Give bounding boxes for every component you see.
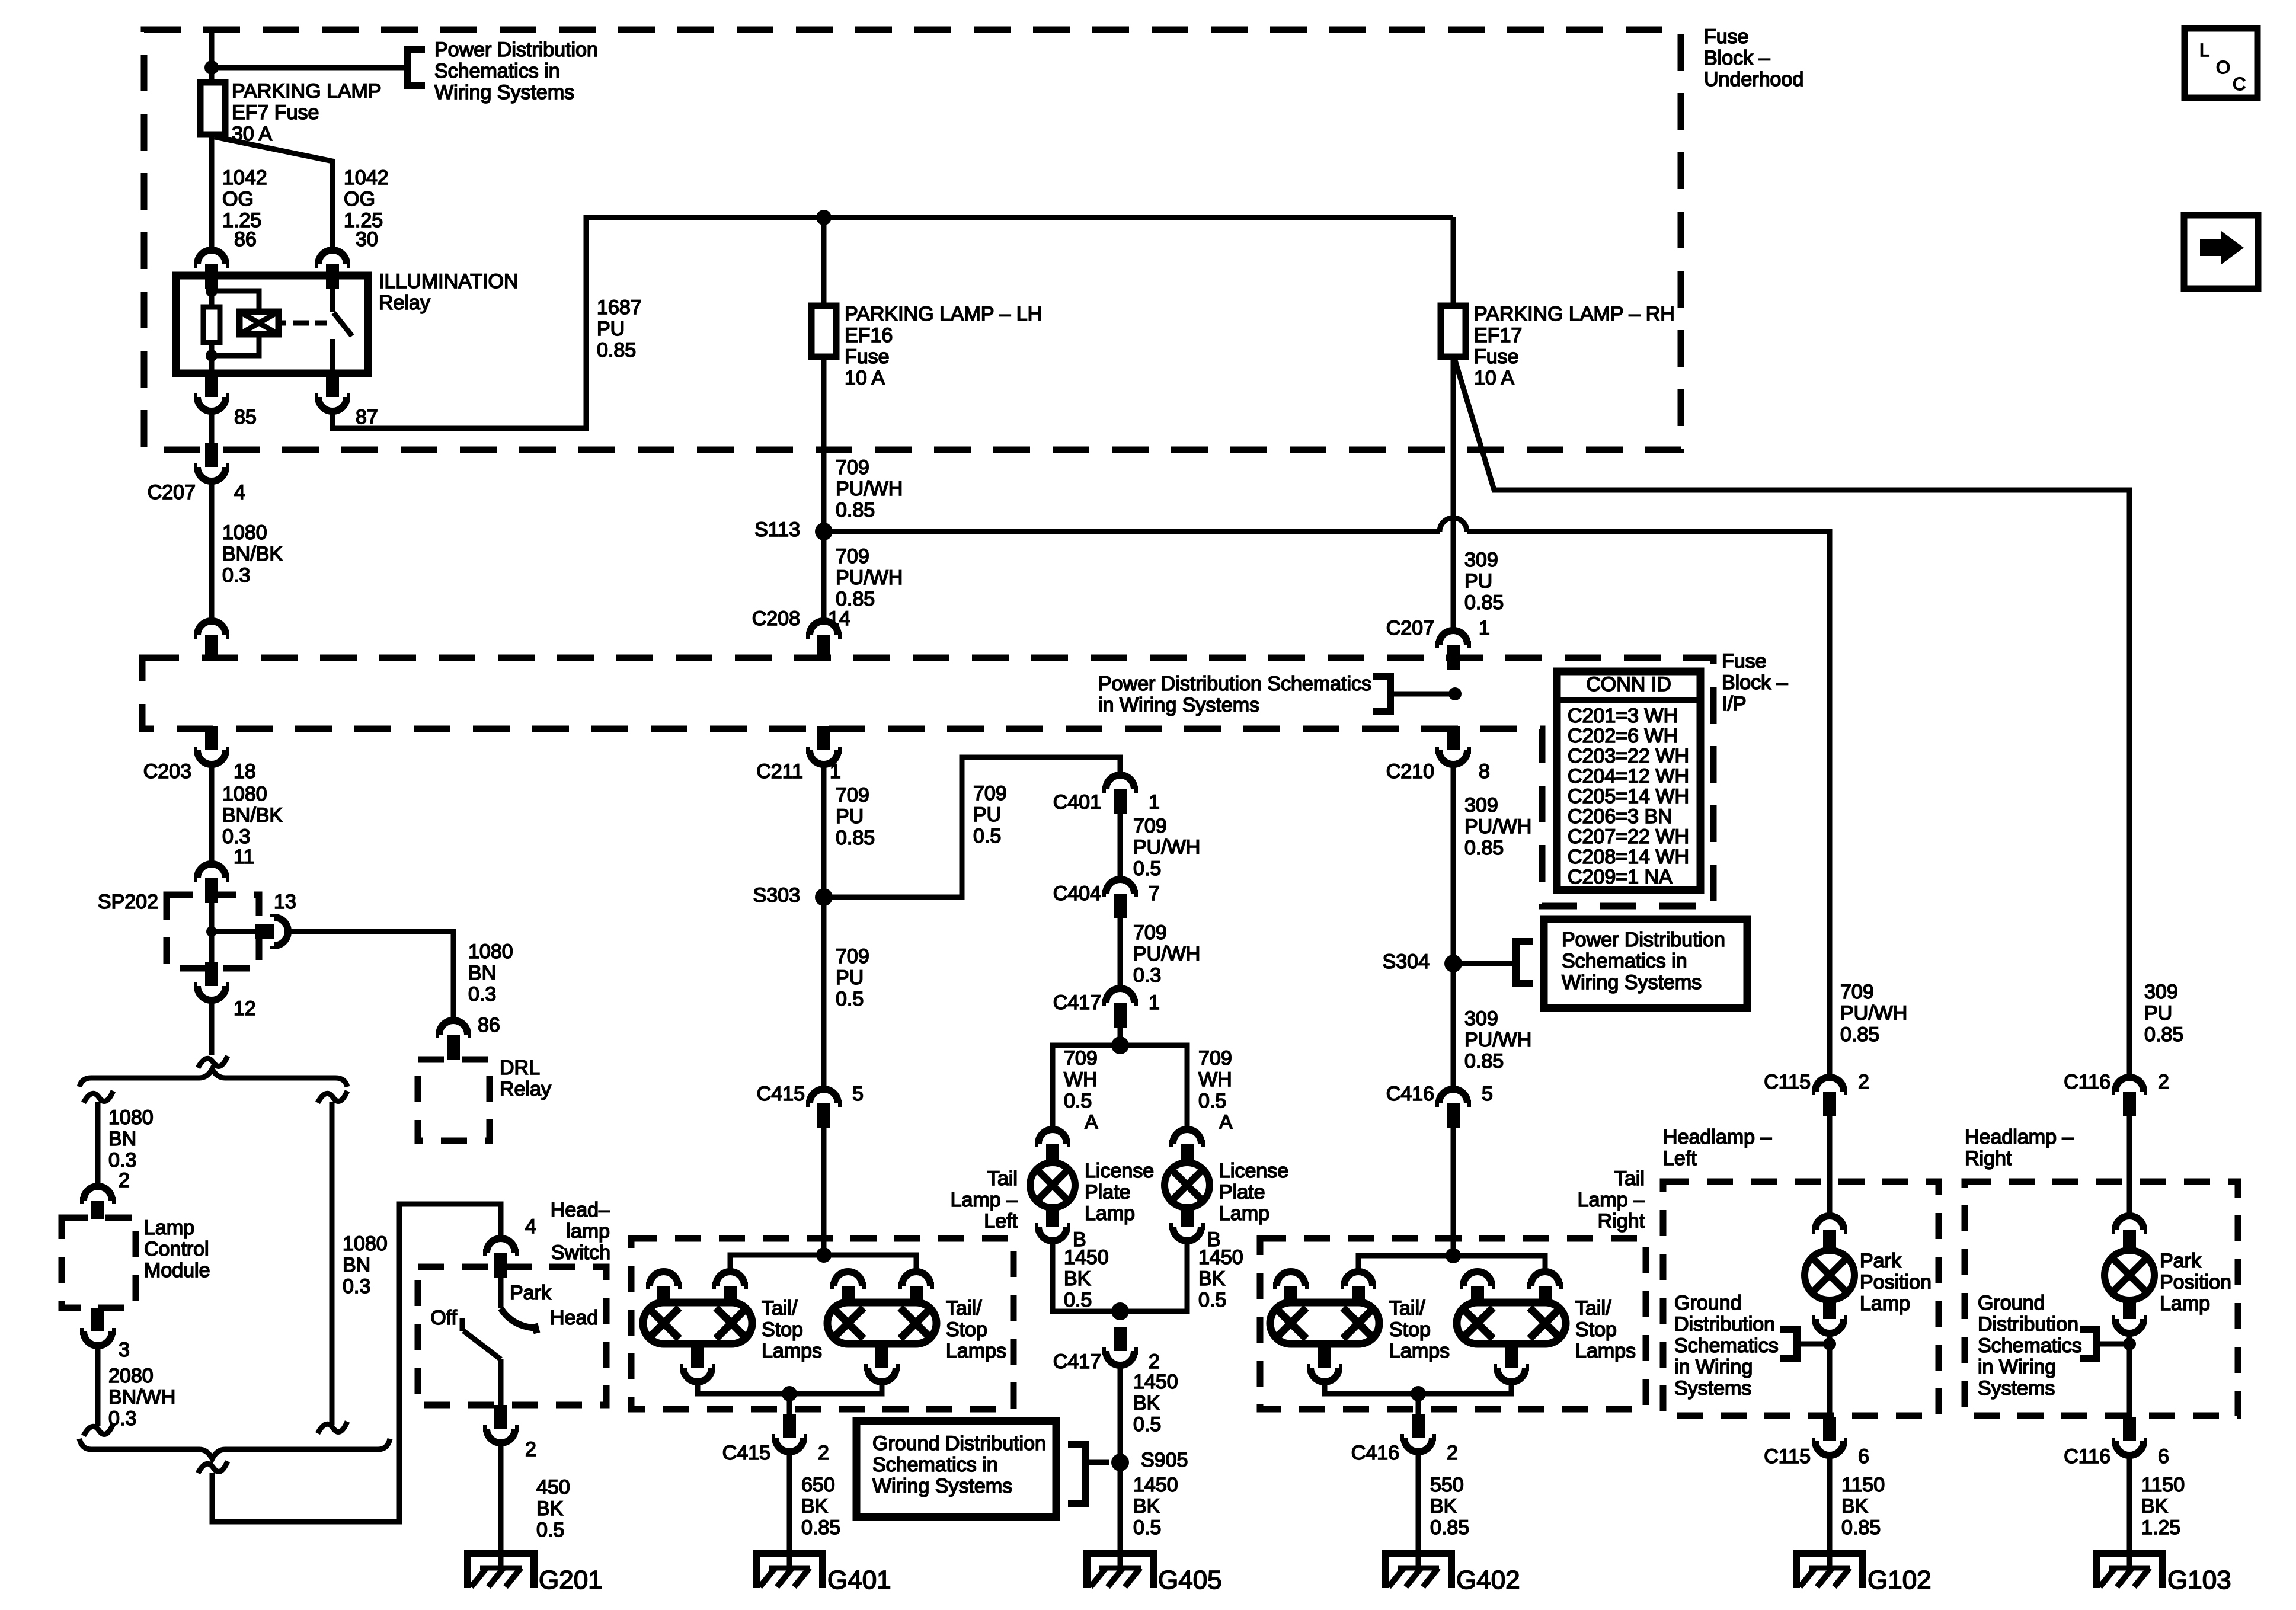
tail lamp right box (dashed) xyxy=(1260,1238,1646,1409)
relay coil symbol xyxy=(239,312,286,334)
connector license lamp left bottom xyxy=(1035,1208,1070,1241)
label C116 (pin6) xyxy=(2064,1445,2110,1468)
label pin 87 xyxy=(356,406,378,428)
label 4 xyxy=(234,481,245,504)
label 14 xyxy=(828,607,850,630)
wire park left to C115-6 xyxy=(1827,1336,1833,1417)
svg-text:2: 2 xyxy=(1858,1071,1869,1093)
connector SP202 pin 12 xyxy=(194,962,229,1000)
svg-text:85: 85 xyxy=(234,406,257,428)
splice S113 xyxy=(815,523,833,540)
svg-text:C203: C203 xyxy=(143,760,191,783)
wire pin 12 down xyxy=(209,1000,215,1055)
svg-text:1: 1 xyxy=(1149,991,1160,1014)
svg-text:6: 6 xyxy=(1858,1445,1869,1468)
label Tail/Stop Lamps (left1) xyxy=(762,1297,822,1362)
label C210 xyxy=(1386,760,1434,783)
connector C417 pin 1 xyxy=(1102,988,1138,1028)
ground G201 xyxy=(468,1553,534,1588)
label C115 (pin6) xyxy=(1764,1445,1811,1468)
connector park lamp right top xyxy=(2112,1216,2147,1251)
wire bracket to S905 xyxy=(1085,1462,1109,1474)
node SP202 xyxy=(206,926,217,937)
switch rotary arc xyxy=(501,1308,537,1333)
svg-text:S113: S113 xyxy=(754,518,800,541)
svg-text:S303: S303 xyxy=(753,884,800,907)
fuse block I/P boundary (dashed) xyxy=(142,658,1713,906)
label PARKING LAMP - LH EF16 Fuse 10 A xyxy=(845,303,1042,389)
wire tail right bus xyxy=(1358,1256,1545,1272)
wire bracket right to wire xyxy=(2097,1342,2124,1347)
svg-text:C416: C416 xyxy=(1351,1442,1399,1464)
svg-text:7: 7 xyxy=(1149,882,1160,905)
svg-text:C417: C417 xyxy=(1053,991,1101,1014)
label 12 xyxy=(234,997,256,1020)
svg-text:Head: Head xyxy=(550,1307,598,1329)
connector SP202 pin 13 xyxy=(255,914,288,949)
DRL relay box (dashed) xyxy=(418,1060,490,1141)
svg-text:1: 1 xyxy=(1149,791,1160,814)
svg-text:C207: C207 xyxy=(148,481,196,504)
label 1080 BN 0.3 (right branch) xyxy=(343,1233,388,1298)
svg-text:C116: C116 xyxy=(2064,1071,2110,1093)
svg-text:Lamp –: Lamp – xyxy=(951,1189,1018,1211)
label 1 (C417) xyxy=(1149,991,1160,1014)
label 1 (C211) xyxy=(830,760,841,783)
connector SP202 pin 11 xyxy=(194,864,229,903)
node tap to power distribution callout xyxy=(204,60,219,75)
wire through SP202 xyxy=(209,889,215,962)
wire C115 into headlamp left xyxy=(1827,1116,1833,1216)
svg-text:A: A xyxy=(1085,1111,1098,1134)
svg-text:L: L xyxy=(2199,40,2209,60)
lamp license plate right xyxy=(1165,1163,1210,1208)
label 1450 BK 0.5 (left) xyxy=(1064,1246,1109,1311)
wire relay coil branch xyxy=(212,291,259,312)
label C116 (pin2) xyxy=(2064,1071,2110,1093)
label 450 BK 0.5 xyxy=(536,1476,570,1541)
splice pack SP202 box (dashed) xyxy=(167,895,259,968)
svg-text:86: 86 xyxy=(234,228,257,251)
wire tail left to C415-2 xyxy=(787,1394,792,1414)
svg-text:1: 1 xyxy=(830,760,841,783)
wire tail left ground bus xyxy=(698,1382,882,1394)
bracket ground callout right xyxy=(2080,1329,2097,1359)
label C115 (pin2) xyxy=(1764,1071,1811,1093)
label Fuse Block - Underhood xyxy=(1704,25,1803,91)
wire C211 to S303 xyxy=(821,764,827,1089)
wire left branch lower xyxy=(95,1346,101,1426)
wire pin13 to DRL relay xyxy=(288,932,453,1020)
bracket S905 callout xyxy=(1068,1444,1085,1503)
tail/stop lamp left 2 xyxy=(827,1302,936,1344)
connector LCM pin 2 xyxy=(80,1186,116,1219)
label 5 (C416) xyxy=(1482,1083,1493,1105)
label 1 (C401) xyxy=(1149,791,1160,814)
switch Off contact tick xyxy=(460,1318,465,1331)
switch arm xyxy=(463,1331,501,1359)
label 2 (C115) xyxy=(1858,1071,1869,1093)
label 6 (C115) xyxy=(1858,1445,1869,1468)
connector C404 xyxy=(1102,879,1138,918)
label 2 (LCM) xyxy=(119,1169,130,1192)
relay switch contact upper xyxy=(330,276,335,312)
label 309 PU 0.85 (above C207-1) xyxy=(1464,549,1504,614)
node ground callout tap right xyxy=(2123,1337,2136,1350)
label Lamp Control Module xyxy=(144,1217,210,1282)
node tail left ground bus xyxy=(782,1386,797,1401)
splice S304 xyxy=(1444,955,1462,972)
wire park right to C116-6 xyxy=(2127,1336,2132,1417)
label S303 xyxy=(753,884,800,907)
label 3 (LCM) xyxy=(119,1339,130,1361)
svg-text:8: 8 xyxy=(1479,760,1490,783)
branch hook right xyxy=(318,1091,347,1103)
label 709 PU 0.5 (branch) xyxy=(973,782,1007,847)
svg-text:C404: C404 xyxy=(1053,882,1101,905)
label G102 xyxy=(1868,1566,1932,1595)
label 2 (C116) xyxy=(2158,1071,2169,1093)
connector headlamp switch pin 4 xyxy=(483,1238,519,1278)
wire left branch upper xyxy=(95,1102,101,1186)
label C404 xyxy=(1053,882,1101,905)
bracket S304 callout xyxy=(1516,942,1533,983)
svg-text:C211: C211 xyxy=(756,760,803,783)
resistor relay (in box) xyxy=(203,307,220,343)
tail/stop lamp left 1 xyxy=(643,1302,752,1344)
label 309 PU/WH 0.85 (below S304) xyxy=(1464,1007,1531,1073)
ground G103 xyxy=(2096,1553,2163,1588)
label C211 xyxy=(756,760,803,783)
connector tail right lamp2 pin a xyxy=(1460,1272,1495,1304)
label Ground Distribution (left) xyxy=(1674,1292,1779,1400)
label Tail/Stop Lamps (right2) xyxy=(1575,1297,1636,1362)
label C417 (pin2) xyxy=(1053,1350,1101,1373)
label Tail/Stop Lamps (left2) xyxy=(946,1297,1006,1362)
label 1042 OG 1.25 (left) xyxy=(222,167,267,232)
label 1450 BK 0.5 (right) xyxy=(1198,1246,1243,1311)
label Tail Lamp - Right xyxy=(1578,1167,1645,1233)
label B (left) xyxy=(1073,1228,1086,1251)
label Ground Distribution (right) xyxy=(1978,1292,2082,1400)
connector C207 pin 4 xyxy=(194,443,229,481)
wire band callout to RH wire xyxy=(1390,692,1451,697)
connector tail left lamp1 bottom xyxy=(680,1344,715,1382)
fuse EF16 xyxy=(811,306,836,357)
label Fuse Block - I/P xyxy=(1722,650,1788,715)
wire license loop top xyxy=(1053,1045,1187,1129)
label 1150 BK 0.85 xyxy=(1841,1474,1885,1539)
label 2 (switch) xyxy=(525,1438,536,1461)
svg-text:3: 3 xyxy=(119,1339,130,1361)
connector tail left lamp2 pin a xyxy=(830,1272,866,1304)
wire relay coil branch return xyxy=(212,334,259,356)
wire tap down to EF16 xyxy=(821,217,827,306)
ground G102 xyxy=(1796,1553,1863,1588)
svg-text:C208: C208 xyxy=(752,607,800,630)
label Headlamp - Left xyxy=(1663,1126,1771,1170)
label 709 WH 0.5 A (left) xyxy=(1064,1047,1098,1134)
wire feed into EF7 fuse xyxy=(209,27,215,82)
node license loop bottom xyxy=(1111,1302,1129,1320)
svg-text:86: 86 xyxy=(478,1014,500,1036)
wire bracket left to wire xyxy=(1797,1342,1824,1347)
wire C415-2 to G401 xyxy=(787,1452,792,1568)
connector C210 lower half xyxy=(1435,726,1471,764)
svg-text:C416: C416 xyxy=(1386,1083,1434,1105)
svg-text:lamp: lamp xyxy=(566,1220,610,1243)
svg-text:C207: C207 xyxy=(1386,617,1434,639)
svg-text:Tail: Tail xyxy=(1614,1167,1645,1190)
label C401 xyxy=(1053,791,1101,814)
label Tail/Stop Lamps (right1) xyxy=(1389,1297,1450,1362)
relay actuation dashed link xyxy=(293,321,327,326)
svg-text:Left: Left xyxy=(984,1210,1018,1233)
ground G405 xyxy=(1087,1553,1153,1588)
connector DRL pin 86 xyxy=(436,1020,471,1060)
svg-text:2: 2 xyxy=(525,1438,536,1461)
svg-text:2: 2 xyxy=(2158,1071,2169,1093)
fuse EF7 xyxy=(200,82,225,135)
svg-text:12: 12 xyxy=(234,997,256,1020)
svg-text:2: 2 xyxy=(119,1169,130,1192)
svg-text:G102: G102 xyxy=(1868,1566,1932,1595)
svg-text:2: 2 xyxy=(1149,1350,1160,1373)
svg-text:G402: G402 xyxy=(1456,1566,1520,1595)
wire break squiggle (above brace) xyxy=(198,1056,228,1068)
wire C116-6 to G103 xyxy=(2127,1455,2132,1568)
label B (right) xyxy=(1207,1228,1221,1251)
fuse block - underhood boundary (dashed) xyxy=(144,30,1681,450)
node tail left feed xyxy=(816,1247,832,1263)
label C203 xyxy=(143,760,191,783)
node tail right ground bus xyxy=(1411,1386,1426,1401)
label 709 PU/WH 0.5 xyxy=(1133,815,1200,880)
svg-text:C210: C210 xyxy=(1386,760,1434,783)
label Power Distribution Schematics in Wiring Systems (band) xyxy=(1098,673,1371,716)
label 7 xyxy=(1149,882,1160,905)
wire S113 bus to left park lamp column xyxy=(832,518,1830,1077)
wire switch to G201 xyxy=(498,1443,504,1568)
wire relay 87 to fuse bus xyxy=(332,217,1453,428)
svg-text:13: 13 xyxy=(274,891,296,913)
label PARKING LAMP EF7 Fuse 30 A xyxy=(232,80,382,145)
label Off xyxy=(430,1307,457,1329)
power distribution callout box (S304) xyxy=(1544,919,1747,1008)
headlamp left box (dashed) xyxy=(1663,1182,1939,1416)
label C208 xyxy=(752,607,800,630)
node band callout tap xyxy=(1448,687,1462,700)
label 650 BK 0.85 xyxy=(801,1474,840,1539)
wire SP202 to pin 13 xyxy=(212,929,255,934)
relay switch arm xyxy=(334,313,352,336)
svg-text:11: 11 xyxy=(234,846,254,868)
connector C415 pin 5 xyxy=(806,1089,842,1128)
label 11 xyxy=(234,846,254,868)
wire EF16 down to S113 xyxy=(821,357,827,621)
ground distribution callout box xyxy=(856,1421,1056,1517)
label License Plate Lamp (left) xyxy=(1085,1160,1154,1225)
svg-text:G103: G103 xyxy=(2167,1566,2231,1595)
label ILLUMINATION Relay xyxy=(379,270,519,314)
svg-text:5: 5 xyxy=(852,1083,864,1105)
wire S303 branch to C401 xyxy=(824,757,1120,897)
label 709 PU/WH 0.3 xyxy=(1133,921,1200,987)
connector C416 pin 2 xyxy=(1400,1414,1436,1452)
wire C404 to C417 xyxy=(1118,918,1123,988)
wire C416-2 to G402 xyxy=(1416,1452,1421,1568)
bracket band callout xyxy=(1373,677,1390,711)
connector park lamp right bottom xyxy=(2112,1300,2147,1333)
label pin 86 xyxy=(234,228,257,251)
connector park lamp left top xyxy=(1812,1216,1847,1251)
connector tail right lamp2 bottom xyxy=(1494,1344,1529,1382)
relay switch contact lower xyxy=(330,339,335,373)
connector tail left lamp1 pin b xyxy=(712,1272,748,1304)
label G405 xyxy=(1158,1566,1222,1595)
svg-text:Park: Park xyxy=(510,1282,552,1304)
tail/stop lamp right 1 xyxy=(1270,1302,1379,1344)
wire C417 to license loop xyxy=(1118,1028,1123,1045)
svg-text:C116: C116 xyxy=(2064,1445,2110,1468)
label 2080 BN/WH 0.3 xyxy=(108,1365,175,1430)
connector relay pin 86 xyxy=(194,250,229,289)
connector park lamp left bottom xyxy=(1812,1300,1847,1333)
svg-text:2: 2 xyxy=(1447,1442,1458,1464)
wire to power distribution bracket xyxy=(212,65,408,71)
wire C417-2 to S905 xyxy=(1118,1365,1123,1568)
label 1042 OG 1.25 (right) xyxy=(344,167,389,232)
label C417 xyxy=(1053,991,1101,1014)
wire EF17 down to C207-1 xyxy=(1451,357,1456,630)
ground G401 xyxy=(756,1553,823,1588)
svg-text:O: O xyxy=(2216,57,2230,78)
connector C417 pin 2 xyxy=(1102,1327,1138,1365)
svg-text:Right: Right xyxy=(1598,1210,1645,1233)
svg-text:Off: Off xyxy=(430,1307,457,1329)
label 709 PU/WH 0.85 (below S113) xyxy=(836,545,903,610)
svg-text:C415: C415 xyxy=(722,1442,770,1464)
fuse EF17 xyxy=(1441,306,1466,357)
connector license lamp right top xyxy=(1169,1129,1205,1163)
wire tail right ground bus xyxy=(1325,1382,1511,1394)
label Park Position Lamp (right) xyxy=(2160,1250,2231,1315)
connector C203 lower half xyxy=(194,726,229,764)
relay box ILLUMINATION xyxy=(176,276,368,373)
label 550 BK 0.85 xyxy=(1430,1474,1469,1539)
wire EF17 diagonal to right park lamp feed xyxy=(1455,360,2129,1077)
label G103 xyxy=(2167,1566,2231,1595)
label pin 85 xyxy=(234,406,257,428)
svg-text:S905: S905 xyxy=(1141,1449,1188,1471)
label 4 (switch) xyxy=(525,1215,536,1238)
svg-text:1: 1 xyxy=(1479,617,1490,639)
svg-text:C401: C401 xyxy=(1053,791,1101,814)
ground G402 xyxy=(1385,1553,1451,1588)
connector tail right lamp1 bottom xyxy=(1307,1344,1342,1382)
label S905 xyxy=(1141,1449,1188,1471)
wire C203 to pin 11 xyxy=(209,764,215,864)
label C415 (pin5) xyxy=(757,1083,805,1105)
label 709 PU 0.5 (below S303) xyxy=(836,945,869,1010)
label License Plate Lamp (right) xyxy=(1219,1160,1288,1225)
node relay coil bottom xyxy=(206,350,218,361)
label 86 (DRL) xyxy=(478,1014,500,1036)
wire C401 to C404 xyxy=(1118,814,1123,879)
branch hook right bottom xyxy=(318,1422,347,1433)
lamp license plate left xyxy=(1030,1163,1075,1208)
svg-text:G405: G405 xyxy=(1158,1566,1222,1595)
svg-text:Head–: Head– xyxy=(551,1199,610,1221)
tail/stop lamp right 2 xyxy=(1457,1302,1566,1344)
wire C115-6 to G102 xyxy=(1827,1455,1833,1568)
label 1687 PU 0.85 xyxy=(597,296,642,361)
label 1 (C207) xyxy=(1479,617,1490,639)
label 6 (C116) xyxy=(2158,1445,2169,1468)
node EF16 tap xyxy=(816,210,832,225)
bracket ground callout left xyxy=(1780,1329,1797,1359)
CONN ID table xyxy=(1557,671,1700,890)
svg-text:6: 6 xyxy=(2158,1445,2169,1468)
svg-text:CONN ID: CONN ID xyxy=(1586,673,1671,696)
branch hook left bottom xyxy=(84,1424,113,1436)
svg-text:C201=3 WHC202=6 WHC203=22 WHC2: C201=3 WHC202=6 WHC203=22 WHC204=12 WHC2… xyxy=(1568,705,1689,888)
wire EF7 to relay pin 86 xyxy=(209,135,215,250)
label Headlamp - Right xyxy=(1965,1126,2073,1170)
svg-text:Lamp –: Lamp – xyxy=(1578,1189,1645,1211)
connector tail right lamp2 pin b xyxy=(1527,1272,1563,1304)
svg-text:G201: G201 xyxy=(539,1566,603,1595)
label C416 (pin5) xyxy=(1386,1083,1434,1105)
connector LCM pin 3 xyxy=(80,1308,116,1346)
label SP202 xyxy=(98,891,158,913)
label 2 (C416) xyxy=(1447,1442,1458,1464)
label C416 (pin2) xyxy=(1351,1442,1399,1464)
label Park Position Lamp (left) xyxy=(1860,1250,1932,1315)
label 1450 BK 0.5 (below S905) xyxy=(1133,1474,1178,1539)
harness brace top xyxy=(79,1069,347,1087)
svg-text:18: 18 xyxy=(234,760,256,783)
svg-text:5: 5 xyxy=(1482,1083,1493,1105)
svg-text:G401: G401 xyxy=(827,1566,891,1595)
wire brace to headlamp switch xyxy=(212,1204,501,1522)
label pin 30 xyxy=(356,228,378,251)
wire down to EF17 xyxy=(1451,217,1456,306)
svg-text:2: 2 xyxy=(818,1442,829,1464)
svg-text:Switch: Switch xyxy=(551,1241,610,1264)
label 709 PU/WH 0.85 (above S113) xyxy=(836,456,903,521)
label G401 xyxy=(827,1566,891,1595)
headlamp switch box (dashed) xyxy=(418,1267,606,1405)
svg-text:S304: S304 xyxy=(1383,950,1430,973)
connector tail right lamp1 pin a xyxy=(1273,1272,1309,1304)
node relay coil top xyxy=(206,285,218,297)
connector relay pin 85 xyxy=(194,373,229,411)
wire S304 to bracket xyxy=(1462,961,1516,966)
bracket power distribution callout xyxy=(408,50,425,86)
svg-text:C415: C415 xyxy=(757,1083,805,1105)
connector C415 pin 2 xyxy=(772,1414,807,1452)
connector tail left lamp2 pin b xyxy=(898,1272,934,1304)
svg-text:SP202: SP202 xyxy=(98,891,158,913)
label DRL Relay xyxy=(500,1057,551,1100)
label Head-lamp Switch xyxy=(551,1199,610,1264)
connector C116 pin 2 xyxy=(2112,1077,2147,1116)
LOC reference box xyxy=(2185,28,2257,98)
lamp park position right xyxy=(2105,1250,2154,1300)
wire tail left bus xyxy=(730,1255,916,1272)
wire license loop bottom xyxy=(1053,1241,1187,1311)
